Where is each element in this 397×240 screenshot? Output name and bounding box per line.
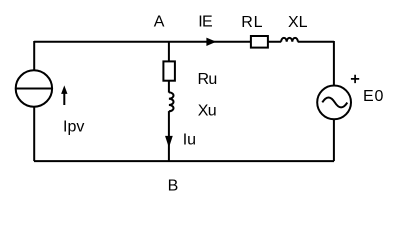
svg-text:Ipv: Ipv: [63, 118, 84, 135]
svg-text:XL: XL: [288, 14, 308, 31]
wire coil to bottom: [168, 111, 170, 161]
voltage source E0 circle: [317, 86, 351, 120]
svg-text:Iu: Iu: [183, 132, 196, 149]
inductor XL coil: [281, 38, 298, 42]
resistor Ru: [163, 61, 175, 80]
current source Ipv circle: [16, 70, 52, 106]
wire left vertical lower: [33, 106, 35, 161]
svg-text:A: A: [154, 14, 165, 31]
inductor Xu coil: [169, 92, 174, 111]
svg-text:Ru: Ru: [198, 71, 217, 88]
svg-text:RL: RL: [241, 14, 263, 31]
arrow IE (right) on top wire: [207, 38, 215, 45]
wire top horizontal: [34, 41, 281, 43]
arrow Ipv direction (up): [63, 91, 65, 105]
wire right vertical upper: [333, 41, 335, 86]
wire resistor to coil: [168, 81, 170, 93]
svg-text:IE: IE: [198, 14, 212, 31]
svg-text:Xu: Xu: [198, 102, 216, 119]
resistor RL: [251, 36, 268, 48]
voltage source E0 sine wave: [322, 97, 347, 107]
plus sign polarity: [351, 75, 359, 83]
wire right vertical lower: [333, 119, 335, 161]
wire bottom horizontal: [34, 160, 334, 162]
svg-text:B: B: [168, 178, 179, 195]
current source Ipv diameter line: [16, 88, 52, 90]
wire node A vertical: [168, 41, 170, 62]
svg-text:E0: E0: [363, 88, 384, 105]
wire left vertical upper: [33, 41, 35, 71]
wire top right of XL: [298, 41, 334, 43]
arrow Iu (down): [166, 136, 173, 146]
